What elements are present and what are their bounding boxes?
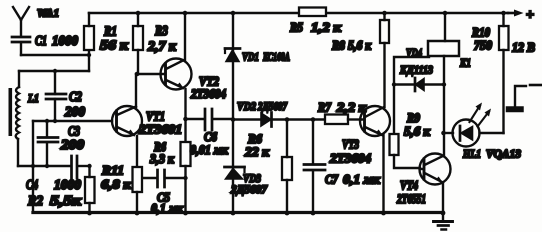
node left return junction bbox=[31, 164, 35, 168]
svg-text:R8: R8 bbox=[331, 38, 345, 53]
node VT2 emitter / C6 bbox=[183, 117, 188, 122]
capacitor C3 bbox=[38, 121, 58, 166]
wire top rail left bbox=[89, 12, 299, 15]
wire VT1 base bbox=[33, 120, 112, 122]
svg-text:0,1 мк: 0,1 мк bbox=[343, 172, 380, 187]
svg-text:2Т6551: 2Т6551 bbox=[396, 192, 426, 206]
transistor VT3 bbox=[360, 106, 390, 213]
svg-text:2,7 к: 2,7 к bbox=[147, 40, 177, 55]
resistor R1 bbox=[84, 13, 94, 50]
svg-text:5,5к: 5,5к bbox=[50, 194, 82, 209]
node C3 tap bbox=[45, 119, 49, 123]
node VD1 bottom / detector bbox=[231, 117, 236, 122]
svg-text:R2: R2 bbox=[27, 194, 43, 209]
node rail R11 bbox=[135, 211, 140, 216]
svg-text:R7: R7 bbox=[317, 100, 331, 115]
svg-text:C2: C2 bbox=[69, 90, 82, 105]
svg-text:5,6 к: 5,6 к bbox=[404, 124, 430, 139]
capacitor C4 bbox=[72, 156, 90, 178]
svg-text:C7: C7 bbox=[325, 172, 338, 187]
node VD4 cathode / relay bbox=[442, 82, 446, 86]
svg-text:2Т3601: 2Т3601 bbox=[138, 123, 182, 137]
svg-text:200: 200 bbox=[64, 105, 85, 120]
svg-text:1000: 1000 bbox=[52, 34, 78, 49]
node C2 top bbox=[53, 69, 57, 73]
svg-text:1,2 к: 1,2 к bbox=[311, 20, 341, 35]
resistor R8 bbox=[380, 13, 389, 107]
inductor L1 bbox=[16, 71, 19, 166]
wire top rail right bbox=[326, 12, 508, 15]
resistor R6b bbox=[282, 120, 292, 214]
resistor R7 bbox=[325, 115, 361, 125]
node C3 bottom junction bbox=[45, 164, 49, 168]
svg-text:VD1: VD1 bbox=[242, 50, 259, 64]
wire tank top bbox=[19, 70, 89, 72]
svg-text:L1: L1 bbox=[27, 91, 39, 105]
svg-text:2Д5607: 2Д5607 bbox=[230, 182, 268, 196]
svg-text:C4: C4 bbox=[26, 178, 38, 193]
wire R1 column lower bbox=[88, 50, 90, 71]
svg-text:1000: 1000 bbox=[54, 178, 81, 193]
resistor R10 bbox=[499, 13, 509, 133]
node VD4 anode bbox=[392, 82, 396, 86]
node C2 tap bbox=[53, 119, 57, 123]
node VT1 collector / R3 / VT2 base bbox=[135, 72, 140, 77]
svg-text:2Т3604: 2Т3604 bbox=[190, 87, 226, 101]
node rail VT4 emitter bbox=[441, 211, 446, 216]
node rail VD3 bbox=[231, 211, 236, 216]
svg-text:22 к: 22 к bbox=[244, 144, 269, 159]
svg-text:6,8 к: 6,8 к bbox=[101, 177, 131, 192]
relay K1 bbox=[428, 13, 459, 156]
node R6a bottom / C5 bbox=[183, 176, 187, 180]
node rail R6b bbox=[285, 211, 290, 216]
node rail VT3 emitter bbox=[381, 211, 386, 216]
capacitor C6 bbox=[186, 109, 234, 130]
svg-text:VT4: VT4 bbox=[400, 179, 418, 193]
wire left return vertical bbox=[32, 121, 34, 211]
svg-text:750: 750 bbox=[474, 38, 492, 53]
node VT2 collector top bbox=[183, 11, 188, 16]
transistor VT4 bbox=[420, 154, 451, 214]
resistor R5 bbox=[299, 8, 326, 17]
diode VD3 bbox=[225, 120, 245, 214]
svg-text:HL1: HL1 bbox=[462, 147, 481, 161]
svg-text:КС168А: КС168А bbox=[262, 50, 290, 64]
svg-text:K1: K1 bbox=[459, 56, 471, 70]
node C1/R1 junction bbox=[87, 53, 91, 57]
wire bottom rail bbox=[33, 211, 443, 214]
svg-text:200: 200 bbox=[60, 138, 84, 153]
relay contact K1.1 bbox=[507, 85, 542, 112]
svg-text:2Т3604: 2Т3604 bbox=[329, 152, 371, 166]
svg-text:WA1: WA1 bbox=[37, 8, 59, 20]
node rail C7 bbox=[311, 211, 316, 216]
transistor VT1 bbox=[112, 74, 142, 167]
diode VD2 bbox=[233, 113, 325, 127]
resistor R2 bbox=[85, 166, 95, 213]
node rail R2 bbox=[87, 211, 92, 216]
svg-text:5,6 к: 5,6 к bbox=[348, 38, 371, 53]
svg-text:VD4: VD4 bbox=[406, 46, 422, 60]
node rail R6a bbox=[183, 211, 188, 216]
node C7 top bbox=[311, 117, 316, 122]
capacitor C1 bbox=[12, 37, 30, 55]
node VT4 collector / LED bbox=[441, 131, 446, 136]
svg-text:0,01 мк: 0,01 мк bbox=[190, 142, 228, 157]
capacitor C5 bbox=[143, 170, 186, 187]
resistor R9 bbox=[390, 134, 421, 168]
LED arrows bbox=[470, 103, 492, 127]
svg-text:КД1113: КД1113 bbox=[399, 63, 433, 77]
ground bbox=[434, 214, 453, 230]
resistor R3 bbox=[133, 13, 143, 74]
antenna WA1 bbox=[13, 7, 29, 36]
diode VD4 bbox=[394, 78, 444, 91]
svg-text:VQA13: VQA13 bbox=[486, 147, 521, 161]
svg-text:2Д5607: 2Д5607 bbox=[257, 99, 288, 113]
capacitor C7 bbox=[304, 120, 325, 214]
svg-text:3,3 к: 3,3 к bbox=[149, 151, 174, 166]
LED HL1 bbox=[444, 120, 504, 147]
L1 ferrite core bbox=[9, 88, 13, 136]
svg-text:R11: R11 bbox=[101, 163, 124, 178]
node R10 top bbox=[501, 11, 506, 16]
wire C1 to R1 column bbox=[21, 54, 89, 56]
svg-text:VT1: VT1 bbox=[146, 110, 165, 124]
node R2 top bbox=[87, 164, 91, 168]
node R3 top bbox=[136, 11, 141, 16]
transistor VT2 bbox=[138, 13, 192, 142]
svg-text:C1: C1 bbox=[35, 34, 47, 49]
node R8 top bbox=[382, 11, 387, 16]
node VD1 top bbox=[231, 11, 236, 16]
svg-text:VT3: VT3 bbox=[342, 138, 359, 152]
svg-text:VD2: VD2 bbox=[237, 99, 256, 113]
svg-text:R1: R1 bbox=[103, 25, 117, 40]
resistor R11 bbox=[133, 167, 143, 213]
capacitor C2 bbox=[46, 71, 66, 121]
svg-text:56 к: 56 к bbox=[100, 39, 129, 54]
wire L1 bottom horizontal bbox=[18, 165, 70, 167]
power terminal + bbox=[508, 10, 524, 17]
resistor R6a bbox=[181, 142, 191, 213]
svg-text:R3: R3 bbox=[154, 24, 168, 39]
svg-text:+: + bbox=[526, 8, 534, 23]
node relay top bbox=[443, 11, 448, 16]
wire relay jog bbox=[394, 57, 429, 134]
svg-text:12 В: 12 В bbox=[512, 40, 535, 55]
svg-text:R5: R5 bbox=[289, 20, 303, 35]
zener VD1 bbox=[225, 13, 240, 119]
node R6b top bbox=[285, 117, 290, 122]
